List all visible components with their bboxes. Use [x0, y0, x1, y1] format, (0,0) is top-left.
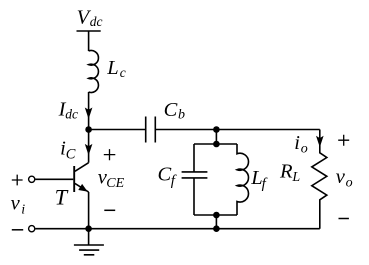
wire stub tank bottom [215, 215, 217, 229]
svg-text:L: L [291, 170, 300, 185]
wire ground rail [35, 228, 320, 230]
wire tank top rail [194, 143, 237, 145]
wire collector to Cb [89, 129, 146, 131]
svg-text:dc: dc [90, 14, 103, 29]
svg-text:v: v [336, 166, 346, 188]
transistor T base bar [73, 166, 75, 192]
svg-text:f: f [262, 176, 268, 192]
label minus input [12, 229, 23, 231]
svg-text:o: o [346, 176, 353, 191]
supply terminal bar Vdc [77, 30, 101, 32]
svg-text:v: v [11, 193, 21, 215]
capacitor Cb [146, 117, 156, 143]
svg-text:f: f [171, 173, 177, 189]
transistor T emitter lead [75, 183, 89, 192]
transistor T emitter arrowhead [78, 184, 87, 192]
input terminal + [29, 176, 35, 182]
arrow iC [85, 144, 93, 156]
svg-text:dc: dc [65, 107, 78, 122]
inductor Lc [89, 51, 99, 93]
wire [88, 31, 90, 51]
arrow io [316, 136, 324, 148]
svg-text:L: L [106, 57, 118, 79]
wire base [35, 178, 73, 180]
transistor T collector lead [75, 163, 89, 172]
wire Cb to RL [155, 129, 319, 131]
input terminal - [29, 226, 35, 232]
wire [88, 130, 90, 163]
label plus output [338, 135, 349, 146]
arrow Idc [85, 108, 93, 120]
label minus vCE [104, 209, 115, 211]
svg-text:C: C [164, 99, 178, 121]
ground [74, 229, 104, 255]
svg-text:o: o [301, 142, 308, 157]
node dot collector [85, 126, 92, 133]
node dot tank top rail [213, 141, 220, 148]
resistor RL [312, 130, 327, 229]
svg-text:i: i [21, 203, 25, 218]
inductor Lf [237, 144, 249, 215]
svg-text:C: C [158, 164, 172, 186]
label plus vCE [104, 149, 116, 160]
svg-text:i: i [294, 132, 300, 154]
node dot tank bottom rail [213, 212, 220, 219]
wire [88, 92, 90, 130]
svg-text:T: T [55, 184, 69, 209]
node dot emitter-ground [85, 225, 92, 232]
node dot main-tank top [213, 126, 220, 133]
node dot ground-tank [213, 225, 220, 232]
svg-text:C: C [66, 146, 76, 162]
wire tank bottom rail [194, 214, 237, 216]
svg-text:b: b [178, 108, 185, 123]
svg-text:R: R [279, 161, 293, 183]
wire [88, 192, 90, 229]
label minus output [339, 218, 349, 220]
label plus input [12, 175, 23, 186]
wire stub tank top [215, 130, 217, 145]
svg-text:CE: CE [106, 176, 124, 191]
svg-text:c: c [120, 65, 126, 80]
capacitor Cf [182, 144, 208, 215]
